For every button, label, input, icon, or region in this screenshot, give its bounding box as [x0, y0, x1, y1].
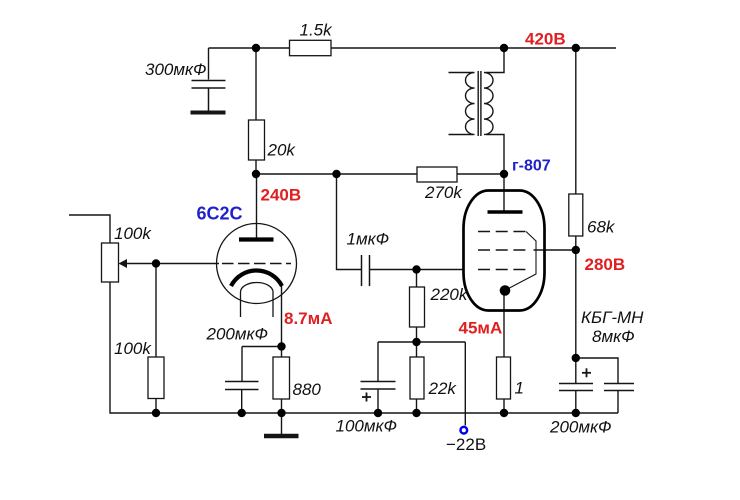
wire cathode lead 6C2C — [281, 286, 283, 413]
wire 22k to rail — [416, 342, 418, 413]
svg-text:8.7мА: 8.7мА — [284, 309, 333, 328]
node 240V — [252, 170, 260, 178]
wire 200uF cathode cap top lead — [241, 347, 243, 382]
node rail 200uF — [238, 409, 246, 417]
svg-text:г-807: г-807 — [512, 158, 551, 175]
wire screen grid to 68k node — [534, 249, 576, 251]
wire anode lead g-807 — [503, 174, 505, 212]
resistor 68k — [569, 194, 583, 236]
svg-text:100мкФ: 100мкФ — [336, 417, 398, 436]
svg-text:22k: 22k — [428, 379, 458, 398]
capacitor 1uF plates — [361, 255, 363, 286]
svg-text:20k: 20k — [267, 141, 297, 160]
wire 220k drop — [416, 270, 418, 343]
resistor 270k — [417, 167, 457, 182]
node bias — [412, 338, 420, 346]
wire capacitor C1 top lead — [208, 48, 210, 80]
triode 6C2C anode plate — [239, 237, 274, 241]
transformer core — [477, 71, 479, 136]
wire bias node horizontal — [378, 341, 465, 343]
ground bar under 300uF — [191, 111, 226, 115]
wire coupling branch down — [337, 174, 362, 270]
svg-text:420В: 420В — [525, 30, 566, 49]
ground — [264, 434, 299, 439]
transformer winding right — [484, 73, 493, 135]
tetrode g-807 cathode dot — [500, 285, 511, 296]
node rail 100k — [152, 409, 160, 417]
wire 100uF bottom lead — [377, 389, 379, 413]
svg-text:8мкФ: 8мкФ — [592, 327, 635, 346]
svg-text:240В: 240В — [261, 186, 302, 205]
tetrode g-807 anode plate — [488, 210, 523, 214]
svg-text:1: 1 — [515, 379, 524, 398]
svg-text:−22В: −22В — [446, 435, 486, 454]
plus mark 200uF output — [582, 368, 591, 377]
wire bottom rail — [110, 282, 618, 413]
node top rail / 68k — [572, 44, 580, 52]
node output caps top — [572, 354, 580, 362]
node rail 100uF — [374, 409, 382, 417]
node top rail / 20k — [252, 44, 260, 52]
wire top rail 420V — [209, 47, 617, 49]
node top rail / transformer — [500, 44, 508, 52]
resistor 20k — [249, 120, 265, 160]
svg-text:100k: 100k — [114, 224, 152, 243]
svg-text:280В: 280В — [585, 255, 626, 274]
svg-text:КБГ-МН: КБГ-МН — [581, 308, 644, 327]
tetrode g-807 grid row 3 control (dashed) — [478, 269, 526, 271]
resistor 220k — [410, 287, 425, 327]
wire transformer primary bottom lead — [486, 135, 504, 175]
svg-text:300мкФ: 300мкФ — [145, 60, 207, 79]
tetrode g-807 grid row 1 (dashed) — [478, 231, 526, 233]
triode 6C2C envelope — [217, 224, 297, 304]
node rail cathode R — [500, 409, 508, 417]
capacitor 8uF plates — [604, 383, 634, 385]
svg-text:220k: 220k — [430, 285, 469, 304]
wire 100uF top lead — [377, 342, 379, 382]
wire anode lead 6C2C — [256, 174, 258, 238]
wire 20k branch — [255, 48, 257, 174]
wire lower 100k branch — [155, 264, 157, 414]
wire input — [69, 215, 110, 243]
svg-text:270k: 270k — [424, 183, 463, 202]
wire ground lead — [281, 413, 283, 434]
triode 6C2C heater — [241, 283, 274, 317]
wire transformer primary top lead — [486, 48, 504, 73]
svg-text:1мкФ: 1мкФ — [347, 230, 390, 249]
resistor 22k — [410, 357, 424, 399]
capacitor 200uF output plates — [559, 383, 593, 385]
wire 8uF cap branch — [576, 358, 618, 384]
wire grid lead g-807 — [417, 269, 464, 271]
wire 240V horizontal — [256, 173, 504, 175]
tetrode g-807 grid row 2 screen (dashed) — [478, 249, 526, 251]
capacitor 300uF lower lead — [208, 88, 210, 111]
resistor 1 — [497, 357, 511, 399]
triode 6C2C grid (dashed) — [222, 263, 291, 265]
wire wiper to grid junction — [125, 263, 156, 265]
node rail 22k — [412, 409, 420, 417]
svg-text:1.5k: 1.5k — [300, 21, 334, 40]
node coupling branch — [332, 170, 340, 178]
wire cathode junction horizontal — [242, 346, 282, 348]
node cathode 6C2C — [277, 342, 285, 350]
node grid g-807 — [412, 265, 420, 273]
wire cathode resistor 1 — [503, 291, 505, 414]
wire 200uF cathode cap bottom lead — [241, 390, 243, 414]
svg-text:45мА: 45мА — [459, 319, 503, 338]
svg-text:68k: 68k — [587, 218, 616, 237]
svg-text:200мкФ: 200мкФ — [206, 325, 269, 344]
plus mark 100uF — [362, 393, 371, 402]
wire 200uF output cap bottom lead — [575, 391, 577, 414]
wire coupling cap to grid junction — [370, 269, 417, 271]
svg-text:200мкФ: 200мкФ — [549, 418, 612, 437]
wire transformer secondary bottom lead — [449, 134, 474, 136]
wire 68k branch — [575, 48, 577, 384]
resistor 880 — [273, 357, 290, 399]
svg-text:6С2С: 6С2С — [197, 204, 243, 224]
resistor 1.5k — [290, 40, 332, 55]
wire -22V feed — [464, 342, 466, 426]
capacitor 300uF plates — [192, 80, 226, 82]
wire 8uF cap bottom lead — [617, 391, 619, 414]
node anode g-807 — [500, 170, 508, 178]
capacitor 200uF cathode plates — [225, 381, 259, 383]
triode 6C2C cathode arc — [231, 270, 282, 286]
terminal -22V — [461, 427, 468, 434]
node rail output caps — [572, 409, 580, 417]
transformer winding left — [466, 73, 475, 135]
potentiometer 100k — [102, 243, 119, 282]
tetrode g-807 beam plate link — [509, 232, 537, 289]
tetrode g-807 envelope — [464, 191, 545, 311]
node grid 6C2C — [152, 259, 160, 267]
wire transformer secondary top lead — [449, 72, 474, 74]
capacitor 100uF plates — [361, 381, 396, 383]
resistor 100k lower — [148, 357, 164, 399]
wire grid lead 6C2C — [156, 263, 219, 265]
node screen 280V — [572, 246, 580, 254]
svg-text:100k: 100k — [114, 339, 152, 358]
svg-text:880: 880 — [293, 380, 322, 399]
node rail ground — [277, 409, 285, 417]
potentiometer wiper arrow — [119, 259, 128, 268]
